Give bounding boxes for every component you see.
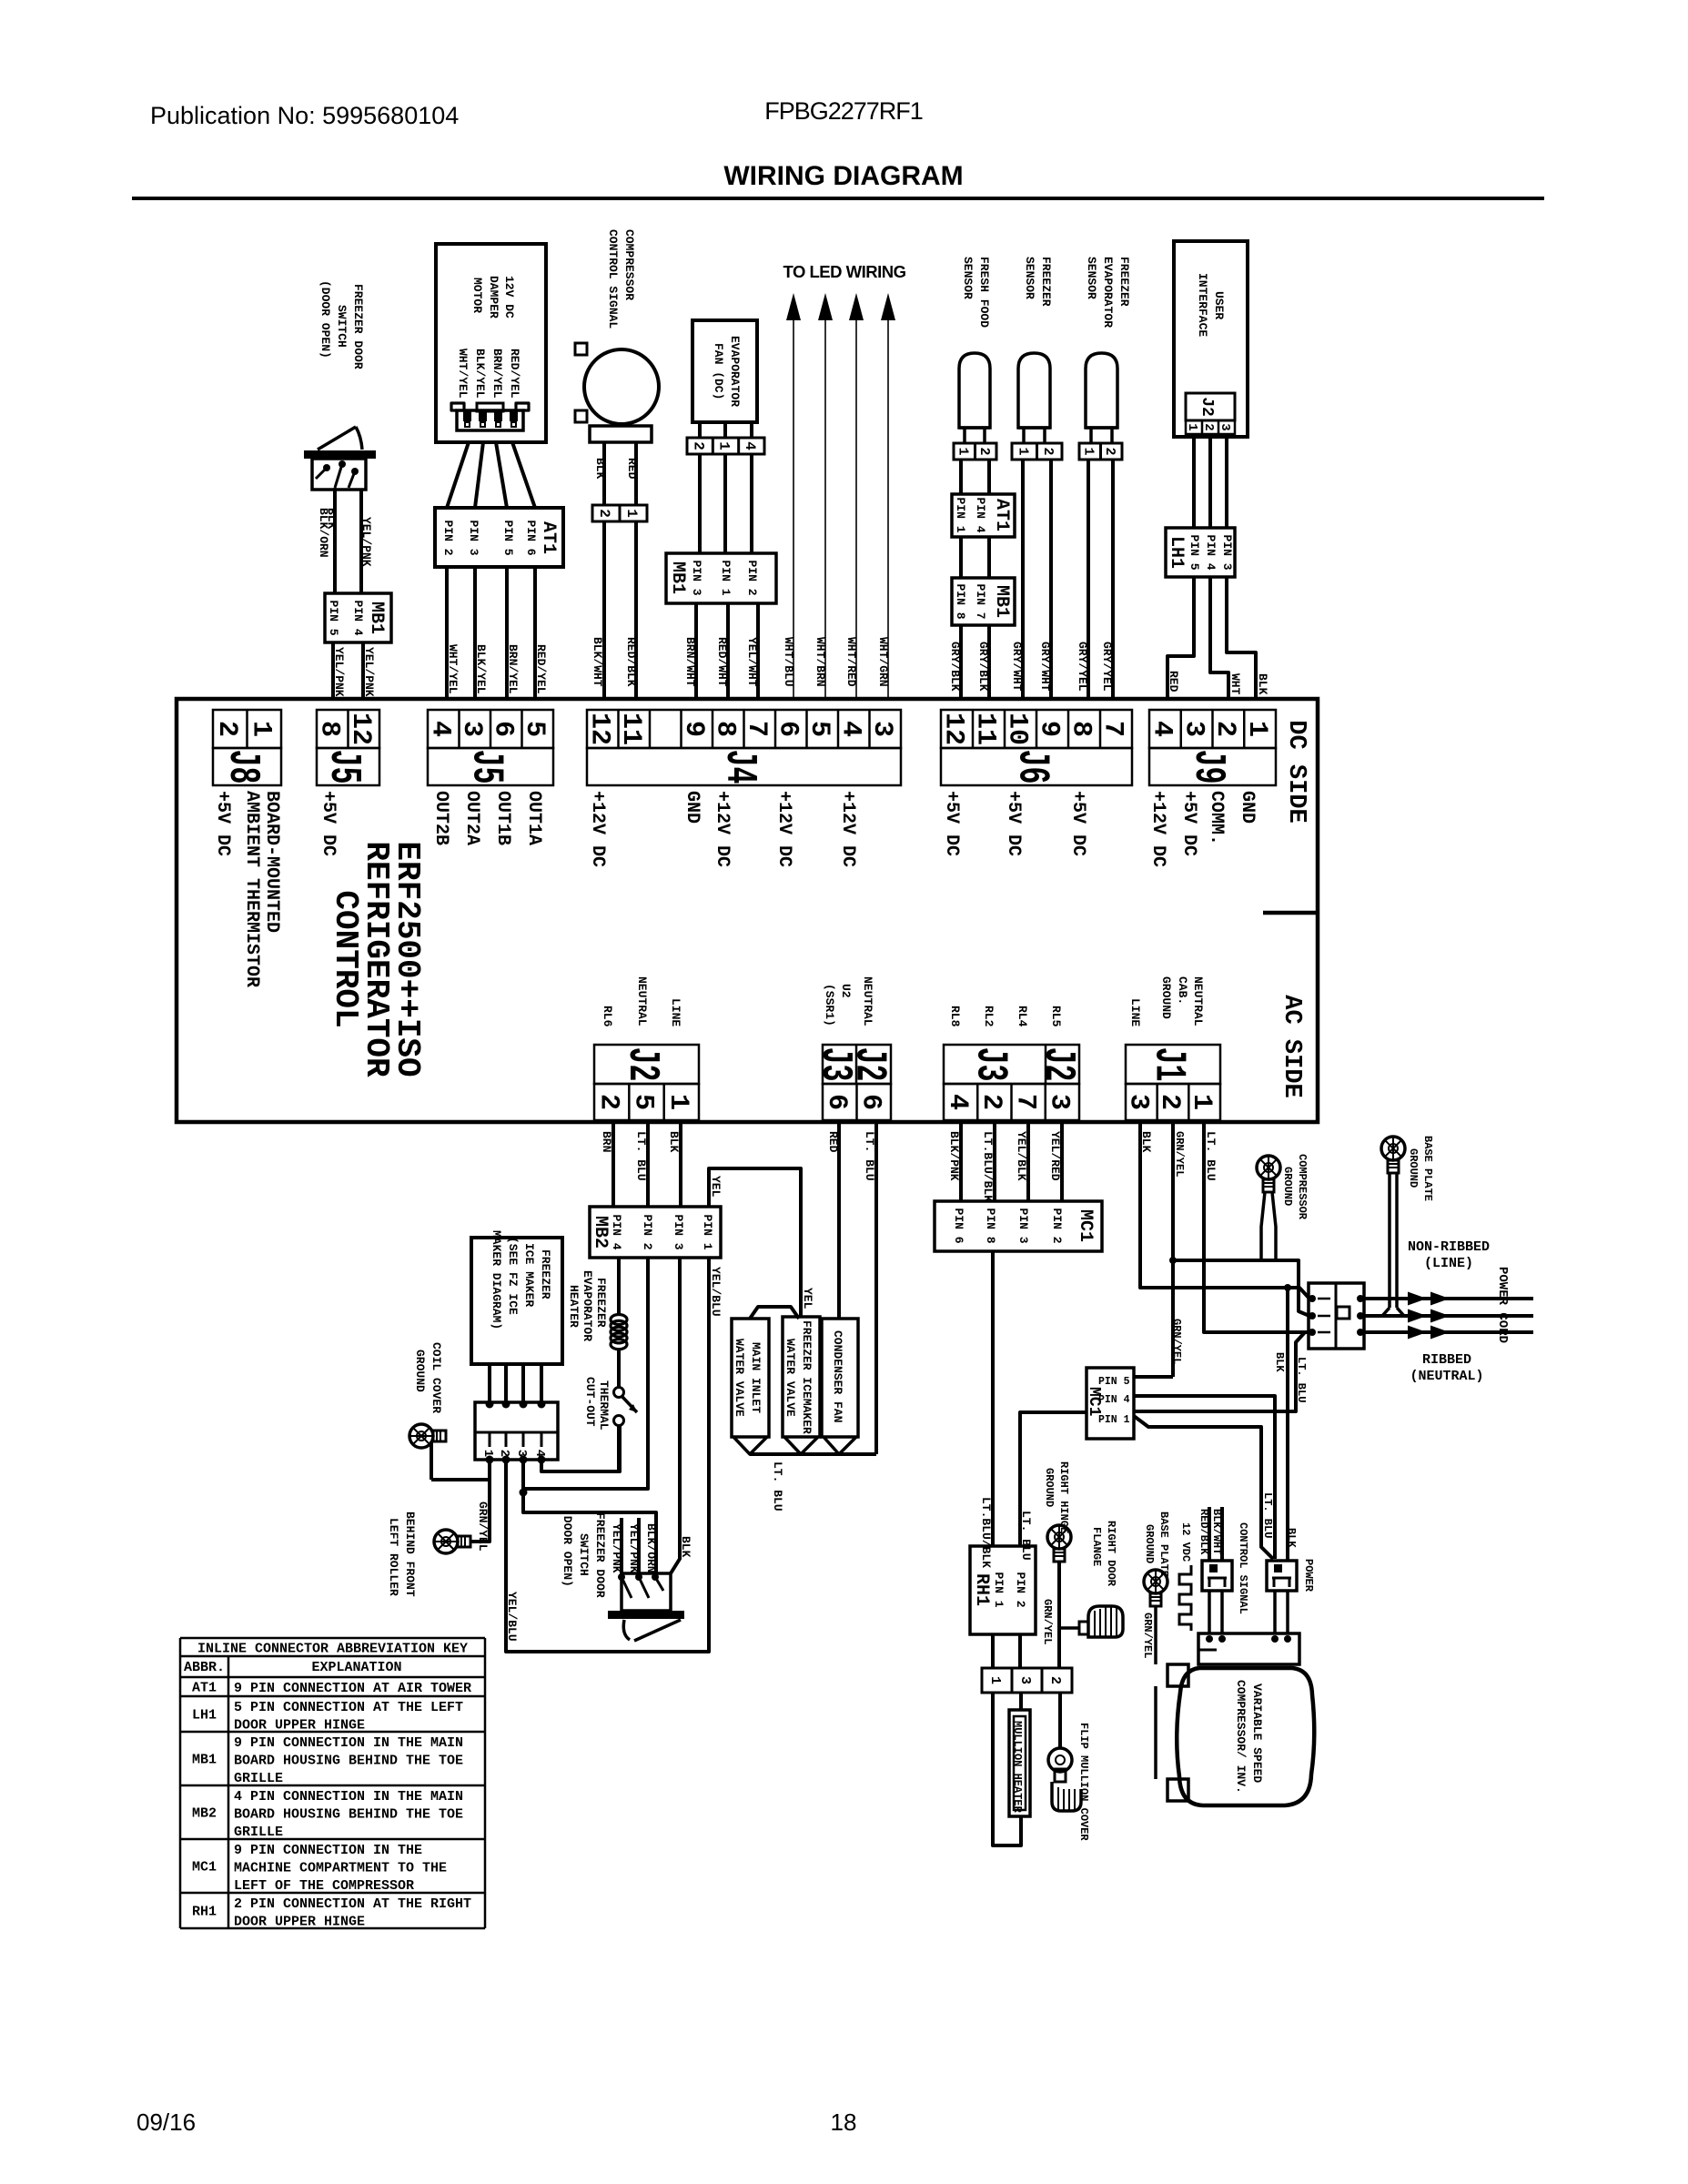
svg-text:RL5: RL5 xyxy=(1049,1006,1063,1027)
inline connector 2/1/4 (evap fan) xyxy=(687,438,764,454)
svg-text:2: 2 xyxy=(596,509,612,518)
label GRN/YEL xyxy=(1041,1599,1054,1644)
control signal plug stubs xyxy=(1209,1507,1222,1561)
svg-text:2: 2 xyxy=(1154,1094,1185,1110)
wire flip mullion xyxy=(1058,1693,1062,1748)
inline connector MB1 (fresh food) xyxy=(952,578,1015,625)
svg-text:PIN 7: PIN 7 xyxy=(974,584,987,620)
freezer icemaker water valve label xyxy=(783,1320,814,1434)
board label DC SIDE xyxy=(1282,720,1309,823)
svg-text:J2: J2 xyxy=(1033,1047,1082,1082)
svg-text:YEL/BLU: YEL/BLU xyxy=(709,1267,723,1317)
label GRN/YEL xyxy=(1141,1613,1154,1658)
svg-text:CAB.: CAB. xyxy=(1176,976,1189,1005)
svg-text:BRN: BRN xyxy=(600,1131,613,1152)
svg-text:(DOOR OPEN): (DOOR OPEN) xyxy=(561,1509,574,1587)
coil cover ground lug xyxy=(409,1424,446,1453)
wire damper to AT1 pin2 xyxy=(447,442,469,508)
base plate ground lug (compressor) xyxy=(1144,1570,1167,1664)
freezer ice maker label xyxy=(490,1230,552,1330)
svg-text:WATER VALVE: WATER VALVE xyxy=(783,1339,797,1417)
svg-text:J2: J2 xyxy=(844,1047,894,1082)
wire RH1 pin1 down xyxy=(991,1634,995,1668)
svg-text:RIGHT DOOR: RIGHT DOOR xyxy=(1105,1521,1117,1587)
svg-text:LT.BLU/BLK: LT.BLU/BLK xyxy=(981,1131,995,1202)
mullion heater element xyxy=(1009,1710,1030,1816)
user interface J2 connector xyxy=(1185,393,1235,434)
J3 relay labels RL8 RL2 RL4 RL5 xyxy=(948,1006,1063,1027)
damper motor label xyxy=(470,276,516,318)
wire fresh food left xyxy=(959,460,963,494)
label freezer evaporator line 0 xyxy=(1117,257,1131,307)
title rule xyxy=(132,197,1544,200)
svg-text:2: 2 xyxy=(1209,721,1240,737)
front roller ground lug xyxy=(434,1530,490,1553)
svg-text:LH1: LH1 xyxy=(1166,536,1187,569)
connector J5 (2-pin) xyxy=(313,710,379,785)
svg-text:WHT/YEL: WHT/YEL xyxy=(456,349,470,399)
J2 relay labels RL6 NEUTRAL LINE xyxy=(601,976,682,1027)
svg-text:WHT/BLU: WHT/BLU xyxy=(782,637,795,687)
label RIBBED (NEUTRAL) xyxy=(1410,1352,1483,1384)
label LT. BLU xyxy=(1204,1131,1218,1181)
label LT. BLU (compressor feed) xyxy=(1295,1357,1308,1402)
svg-text:BOARD HOUSING BEHIND THE TOE: BOARD HOUSING BEHIND THE TOE xyxy=(234,1807,463,1823)
svg-text:PIN 2: PIN 2 xyxy=(745,561,759,596)
svg-text:10: 10 xyxy=(1002,713,1033,745)
svg-text:GND: GND xyxy=(682,791,702,824)
connector J2 (left) xyxy=(592,1045,699,1120)
svg-text:SENSOR: SENSOR xyxy=(961,257,975,299)
board DC/AC divider tick xyxy=(1263,911,1318,915)
wire fan to connector xyxy=(700,422,752,438)
label BLK/WHT xyxy=(591,637,604,687)
svg-text:DAMPER: DAMPER xyxy=(487,276,500,318)
svg-text:ABBR.: ABBR. xyxy=(184,1660,225,1675)
svg-text:LT.BLU/BLK: LT.BLU/BLK xyxy=(979,1497,993,1568)
svg-text:SENSOR: SENSOR xyxy=(1023,257,1036,299)
LED wire arrow WHT/RED xyxy=(849,293,864,699)
connector J1 xyxy=(1123,1045,1220,1120)
svg-text:+12V DC: +12V DC xyxy=(587,791,608,867)
wire UI pin2 to LH1 xyxy=(1208,434,1212,528)
label RED xyxy=(625,458,639,480)
svg-text:BOARD HOUSING BEHIND THE TOE: BOARD HOUSING BEHIND THE TOE xyxy=(234,1754,463,1769)
wire LT.BLU/BLK (MC1 to RH1) xyxy=(991,1251,995,1546)
svg-text:2: 2 xyxy=(976,448,992,456)
wire mullion heater feed xyxy=(1019,1693,1023,1710)
svg-text:FREEZER: FREEZER xyxy=(1117,257,1131,307)
compressor mount squares xyxy=(1167,1664,1188,1801)
header model number xyxy=(764,97,923,125)
wire mullion loop xyxy=(993,1693,1021,1845)
label freezer line 0 xyxy=(1039,257,1053,307)
wire damper to AT1 pin5 xyxy=(496,442,507,508)
label BLK xyxy=(593,458,607,480)
svg-text:VARIABLE SPEED: VARIABLE SPEED xyxy=(1250,1683,1264,1783)
label WHT/BLU xyxy=(782,637,795,687)
svg-text:BLK: BLK xyxy=(593,458,607,480)
svg-text:PIN 3: PIN 3 xyxy=(690,561,703,596)
svg-text:COMPRESSOR: COMPRESSOR xyxy=(1296,1154,1309,1220)
svg-text:DC SIDE: DC SIDE xyxy=(1282,720,1309,823)
label YEL/PNK xyxy=(332,647,346,697)
main inlet water valve label xyxy=(733,1339,763,1417)
inline connector MB1 (door switch) xyxy=(325,593,391,642)
svg-text:+12V DC: +12V DC xyxy=(773,791,794,867)
svg-text:YEL/BLK: YEL/BLK xyxy=(1015,1131,1028,1181)
U2 SSR1 labels xyxy=(823,976,874,1026)
svg-text:2: 2 xyxy=(592,1094,623,1110)
wire BRN/WHT (to J4 pin9) xyxy=(694,603,698,699)
user interface box xyxy=(1174,241,1248,437)
LED wire arrow WHT/GRN xyxy=(881,293,895,699)
svg-text:4 PIN CONNECTION IN THE MAIN: 4 PIN CONNECTION IN THE MAIN xyxy=(234,1789,463,1805)
svg-text:COMPRESSOR: COMPRESSOR xyxy=(622,229,636,300)
svg-text:1: 1 xyxy=(1015,448,1030,456)
wire fresh food AT1-MB1 left xyxy=(959,537,963,578)
wire BRN/YEL (AT1 to J5) xyxy=(505,567,509,699)
svg-text:+12V DC: +12V DC xyxy=(712,791,733,867)
wire BLK/ORN-BLK (switch to MB1) xyxy=(333,490,337,593)
wire fresh food AT1-MB1 right xyxy=(987,537,991,578)
svg-text:YEL/PNK: YEL/PNK xyxy=(610,1523,623,1573)
label fresh food line 0 xyxy=(977,257,991,328)
J8 label +5V DC xyxy=(212,791,233,856)
svg-text:PIN 3: PIN 3 xyxy=(467,521,480,556)
label BLK xyxy=(1139,1131,1153,1153)
svg-text:LEFT ROLLER: LEFT ROLLER xyxy=(387,1518,400,1596)
svg-text:GRN/YEL: GRN/YEL xyxy=(476,1501,490,1552)
label YEL/WHT xyxy=(745,637,759,687)
svg-text:OUT2A: OUT2A xyxy=(461,791,482,845)
svg-text:EVAPORATOR: EVAPORATOR xyxy=(728,336,742,407)
svg-text:4: 4 xyxy=(532,1450,547,1457)
wire BLK/WHT (to J4 pin12) xyxy=(602,521,606,699)
inline connector abbreviation key table xyxy=(180,1638,485,1930)
evaporator fan box xyxy=(692,320,757,422)
svg-text:WHT/YEL: WHT/YEL xyxy=(446,644,460,694)
svg-text:7: 7 xyxy=(1009,1094,1040,1110)
svg-text:BEHIND FRONT: BEHIND FRONT xyxy=(403,1512,417,1597)
label RED/YEL xyxy=(534,644,548,694)
wire freezer right xyxy=(1049,460,1053,699)
label GRY/YEL xyxy=(1100,642,1114,692)
wire YEL/PNK (MB1 to J5 pin12) xyxy=(361,642,365,699)
svg-text:RED/YEL: RED/YEL xyxy=(508,349,521,399)
svg-text:8: 8 xyxy=(313,721,344,737)
svg-text:GRN/YEL: GRN/YEL xyxy=(1170,1319,1183,1364)
svg-text:MB1: MB1 xyxy=(991,585,1012,618)
label freezer evaporator line 1 xyxy=(1101,257,1115,328)
base plate ground label (power cord) xyxy=(1407,1136,1434,1201)
connector J3/J2 (relay) xyxy=(942,1045,1082,1120)
power cord ground wire xyxy=(1364,1309,1533,1323)
svg-text:3: 3 xyxy=(866,721,897,737)
svg-text:EXPLANATION: EXPLANATION xyxy=(311,1660,401,1675)
connector J3/J2 (SSR) xyxy=(810,1045,894,1120)
svg-text:INLINE CONNECTOR ABBREVIATION: INLINE CONNECTOR ABBREVIATION KEY xyxy=(197,1642,468,1657)
svg-text:FAN (DC): FAN (DC) xyxy=(712,343,725,399)
condenser fan label xyxy=(831,1330,844,1422)
wire RH1 pin2 down xyxy=(1018,1634,1022,1668)
wire MB2 pin4 down xyxy=(617,1258,621,1316)
svg-text:CONTROL: CONTROL xyxy=(327,890,364,1027)
connector J4 xyxy=(583,710,901,785)
svg-text:3: 3 xyxy=(514,1450,529,1457)
svg-text:WIRING DIAGRAM: WIRING DIAGRAM xyxy=(723,161,963,191)
12 VDC square wave symbol xyxy=(1179,1565,1191,1631)
label BLK/PNK xyxy=(947,1131,961,1181)
svg-text:J4: J4 xyxy=(714,750,763,784)
svg-text:BLK: BLK xyxy=(1285,1528,1298,1548)
svg-text:2: 2 xyxy=(975,1094,1006,1110)
svg-text:(SSR1): (SSR1) xyxy=(823,984,836,1026)
wire freezer evaporator left xyxy=(1087,460,1090,699)
inline connector MB2 xyxy=(590,1207,721,1258)
svg-text:11: 11 xyxy=(615,713,646,745)
wire freezer left xyxy=(1021,460,1025,699)
variable speed compressor label xyxy=(1234,1680,1264,1794)
compressor control signal label xyxy=(606,229,636,329)
svg-text:AT1: AT1 xyxy=(192,1681,217,1696)
label POWER xyxy=(1302,1559,1315,1592)
svg-text:MB1: MB1 xyxy=(667,561,688,594)
thermal cut-out switch xyxy=(614,1388,638,1472)
svg-text:BLK/PNK: BLK/PNK xyxy=(947,1131,961,1181)
svg-text:GRY/BLK: GRY/BLK xyxy=(976,642,990,692)
svg-text:6: 6 xyxy=(487,721,518,737)
wire YEL/RED (J2 to MC1) xyxy=(1060,1122,1064,1201)
svg-text:RL4: RL4 xyxy=(1016,1006,1029,1027)
svg-text:1: 1 xyxy=(955,448,970,456)
svg-text:GROUND: GROUND xyxy=(1043,1468,1056,1507)
svg-text:(SEE FZ ICE: (SEE FZ ICE xyxy=(506,1237,520,1315)
rocker switch symbol (freezer door, top) xyxy=(304,427,376,490)
svg-text:RED: RED xyxy=(1167,671,1180,693)
svg-text:PIN 1: PIN 1 xyxy=(719,561,733,596)
compressor control signal plug xyxy=(1202,1561,1232,1591)
label BLK/ORN xyxy=(644,1523,658,1573)
inline connector MC1 (small) xyxy=(1085,1368,1134,1439)
svg-text:PIN 2: PIN 2 xyxy=(1050,1208,1064,1244)
svg-text:(NEUTRAL): (NEUTRAL) xyxy=(1410,1369,1483,1384)
wire UI pin1 to LH1 xyxy=(1192,434,1196,528)
label GRY/BLK xyxy=(976,642,990,692)
svg-text:BASE PLATE: BASE PLATE xyxy=(1421,1136,1434,1201)
svg-text:RH1: RH1 xyxy=(971,1573,992,1606)
label YEL/PNK xyxy=(359,517,373,567)
LED wire arrow WHT/BLU xyxy=(786,293,801,699)
label 12 VDC xyxy=(1179,1522,1192,1562)
svg-text:9 PIN CONNECTION AT AIR TOWER: 9 PIN CONNECTION AT AIR TOWER xyxy=(234,1681,471,1696)
label YEL/BLU xyxy=(505,1592,519,1642)
svg-text:BRN/YEL: BRN/YEL xyxy=(506,644,520,694)
svg-text:YEL: YEL xyxy=(801,1288,814,1309)
footer page number xyxy=(831,2108,857,2136)
wire YEL/WHT (to J4 pin7) xyxy=(756,603,760,699)
svg-text:GRN/YEL: GRN/YEL xyxy=(1173,1131,1186,1177)
svg-text:PIN 1: PIN 1 xyxy=(701,1215,714,1250)
wire evap fan pin1 xyxy=(723,454,727,553)
label GRY/WHT xyxy=(1038,642,1052,692)
footer date xyxy=(136,2108,196,2136)
svg-text:GROUND: GROUND xyxy=(1407,1148,1420,1188)
svg-text:COMM.: COMM. xyxy=(1206,791,1227,845)
base plate ground lug (power cord) xyxy=(1381,1137,1405,1316)
wire BLK branch to compressor xyxy=(1284,1284,1291,1561)
svg-text:GROUND: GROUND xyxy=(1159,976,1173,1019)
svg-text:EVAPORATOR: EVAPORATOR xyxy=(1101,257,1115,328)
label POWER CORD xyxy=(1495,1267,1510,1343)
variable speed compressor body xyxy=(1177,1668,1314,1805)
svg-text:J8: J8 xyxy=(217,750,267,784)
svg-text:GRY/WHT: GRY/WHT xyxy=(1038,642,1052,692)
wire LT. BLU (RH1 to MC1 small) xyxy=(1020,1412,1087,1546)
label YEL/BLK xyxy=(1015,1131,1028,1181)
svg-text:BLK: BLK xyxy=(325,508,339,530)
svg-text:1: 1 xyxy=(245,721,276,737)
evaporator fan label xyxy=(712,336,742,407)
label BRN/WHT xyxy=(683,637,697,687)
svg-text:YEL/PNK: YEL/PNK xyxy=(332,647,346,697)
svg-text:NEUTRAL: NEUTRAL xyxy=(635,976,649,1026)
svg-text:PIN 4: PIN 4 xyxy=(610,1215,623,1250)
svg-text:PIN 1: PIN 1 xyxy=(954,498,967,533)
svg-text:4: 4 xyxy=(742,441,758,450)
label GRY/WHT xyxy=(1010,642,1024,692)
inline connector MC1 (machine compartment) xyxy=(935,1201,1102,1251)
wire WHT/YEL (AT1 to J5) xyxy=(445,567,449,699)
svg-text:SWITCH: SWITCH xyxy=(335,305,349,348)
wire BLK/YEL (AT1 to J5) xyxy=(473,567,477,699)
wire LT.BLU (plug to MC1 small pin1) xyxy=(1134,1332,1305,1411)
svg-text:1: 1 xyxy=(1241,721,1272,737)
svg-text:YEL/PNK: YEL/PNK xyxy=(627,1523,641,1573)
title WIRING DIAGRAM xyxy=(723,161,963,191)
svg-text:RED/WHT: RED/WHT xyxy=(715,637,729,687)
label RED xyxy=(1167,671,1180,693)
svg-text:COIL COVER: COIL COVER xyxy=(430,1342,443,1413)
rocker switch symbol (freezer door, bottom) xyxy=(608,1573,684,1641)
svg-text:ICE MAKER: ICE MAKER xyxy=(522,1243,536,1307)
board title ERF2500++ISO REFRIGERATOR CONTROL xyxy=(327,841,426,1077)
label WHT/RED xyxy=(844,637,858,687)
svg-text:LT. BLU: LT. BLU xyxy=(863,1131,876,1181)
svg-text:PIN 1: PIN 1 xyxy=(1098,1414,1130,1426)
svg-text:11: 11 xyxy=(970,713,1001,745)
wire YEL (MB2 pin1 over to valve) xyxy=(709,1168,801,1317)
valve bridge wire xyxy=(750,1307,799,1319)
LED wire arrow WHT/BRN xyxy=(818,293,833,699)
svg-text:HEATER: HEATER xyxy=(567,1285,581,1328)
mullion heater label xyxy=(1011,1721,1024,1814)
svg-text:FREEZER DOOR: FREEZER DOOR xyxy=(593,1512,607,1598)
svg-text:J6: J6 xyxy=(1007,750,1056,784)
label RED/WHT xyxy=(715,637,729,687)
svg-text:PIN 3: PIN 3 xyxy=(1220,535,1234,571)
svg-text:2: 2 xyxy=(1201,423,1216,430)
svg-text:MC1: MC1 xyxy=(192,1860,217,1876)
svg-text:PIN 3: PIN 3 xyxy=(1016,1208,1030,1244)
svg-text:GRN/YEL: GRN/YEL xyxy=(1041,1599,1054,1644)
svg-text:GRILLE: GRILLE xyxy=(234,1771,283,1786)
svg-text:2: 2 xyxy=(497,1450,511,1457)
svg-text:AMBIENT THERMISTOR: AMBIENT THERMISTOR xyxy=(241,791,262,987)
svg-text:18: 18 xyxy=(831,2108,857,2136)
flip mullion cover label xyxy=(1077,1723,1090,1841)
svg-text:PIN 6: PIN 6 xyxy=(952,1208,965,1244)
svg-text:LT. BLU: LT. BLU xyxy=(1261,1492,1274,1538)
label BLK/WHT xyxy=(1210,1509,1223,1554)
svg-text:PIN 5: PIN 5 xyxy=(327,601,340,636)
wire LT.BLU/BLK (J3 to MC1) xyxy=(993,1122,996,1201)
label BLK xyxy=(679,1536,692,1558)
wires ice maker to connector xyxy=(486,1364,546,1409)
connector J9 xyxy=(1147,710,1276,785)
svg-text:BOARD-MOUNTED: BOARD-MOUNTED xyxy=(261,791,282,933)
wire freezer evaporator right xyxy=(1111,460,1115,699)
svg-text:+5V DC: +5V DC xyxy=(941,791,962,856)
svg-text:RL8: RL8 xyxy=(948,1006,962,1027)
wire pin3 to MB2 pin2 xyxy=(523,1258,648,1489)
J9 labels +12V +5V COMM GND xyxy=(1147,791,1258,867)
svg-text:1: 1 xyxy=(987,1676,1003,1684)
svg-text:3: 3 xyxy=(1123,1094,1154,1110)
svg-text:BLK/WHT: BLK/WHT xyxy=(1210,1509,1223,1554)
svg-text:J5: J5 xyxy=(318,750,368,784)
label BLK xyxy=(667,1131,681,1153)
compressor ground lug xyxy=(1257,1156,1280,1260)
svg-text:FREEZER ICEMAKER: FREEZER ICEMAKER xyxy=(800,1320,814,1434)
svg-text:RED: RED xyxy=(826,1131,840,1153)
right hinge ground label xyxy=(1043,1461,1070,1533)
svg-text:WHT/BRN: WHT/BRN xyxy=(814,637,827,687)
svg-text:CUT-OUT: CUT-OUT xyxy=(583,1377,597,1427)
svg-text:CONTROL SIGNAL: CONTROL SIGNAL xyxy=(606,229,620,329)
svg-text:2: 2 xyxy=(690,441,706,450)
wire LT.BLU (J1 pin1 to plug) xyxy=(1204,1122,1309,1332)
svg-text:GRN/YEL: GRN/YEL xyxy=(1141,1613,1154,1658)
wire GRY/BLK left xyxy=(959,625,963,699)
wire GRN/YEL pin1 to grounds xyxy=(431,1453,490,1542)
label YEL/PNK xyxy=(610,1523,623,1573)
label GRN/YEL xyxy=(1170,1319,1183,1364)
svg-text:OUT1B: OUT1B xyxy=(492,791,513,845)
wires plugs to terminal box xyxy=(1209,1591,1288,1633)
coil cover ground label xyxy=(413,1342,443,1413)
svg-text:POWER CORD: POWER CORD xyxy=(1495,1267,1510,1343)
svg-text:RL2: RL2 xyxy=(982,1006,996,1027)
svg-text:GRY/YEL: GRY/YEL xyxy=(1100,642,1114,692)
power cord plug xyxy=(1309,1283,1364,1349)
svg-text:GROUND: GROUND xyxy=(1143,1524,1156,1563)
svg-text:Publication No: 5995680104: Publication No: 5995680104 xyxy=(150,102,459,129)
svg-text:GRY/WHT: GRY/WHT xyxy=(1010,642,1024,692)
svg-text:PIN 5: PIN 5 xyxy=(1188,535,1201,571)
svg-text:1: 1 xyxy=(662,1094,693,1110)
user interface label xyxy=(1196,273,1226,337)
wire pin4 to thermal cutout xyxy=(541,1425,620,1471)
svg-text:MC1: MC1 xyxy=(1075,1209,1096,1242)
J8 label BOARD-MOUNTED AMBIENT THERMISTOR xyxy=(241,791,282,987)
svg-text:OUT1A: OUT1A xyxy=(523,791,544,845)
label GRY/BLK xyxy=(948,642,962,692)
svg-text:YEL: YEL xyxy=(709,1176,723,1198)
label BLK xyxy=(1256,673,1269,695)
wire YEL/PNK (MB1 to J5 pin8) xyxy=(331,642,335,699)
svg-text:YEL/RED: YEL/RED xyxy=(1048,1131,1062,1181)
